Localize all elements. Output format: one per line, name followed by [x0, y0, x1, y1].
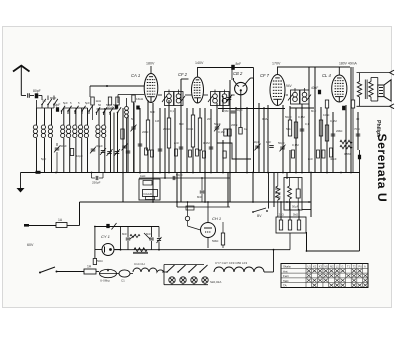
resistor R20 — [288, 120, 291, 136]
resistor below oscillator coil — [121, 129, 124, 139]
svg-text:A: A — [364, 264, 366, 268]
switch BV — [252, 211, 254, 213]
resistor R11 — [167, 118, 170, 148]
wire y178 — [139, 177, 230, 179]
trimmer capacitor C5 — [55, 147, 60, 149]
band switch S3 contacts — [96, 112, 98, 114]
svg-text:G: G — [341, 264, 343, 268]
svg-text:200Ω: 200Ω — [163, 127, 171, 131]
output transformer secondary — [369, 82, 373, 98]
svg-text:140V: 140V — [195, 61, 204, 65]
svg-text:1nF: 1nF — [266, 140, 271, 144]
svg-text:0,1M: 0,1M — [262, 117, 269, 121]
capacitor C10 — [115, 105, 118, 109]
svg-text:Serenata U: Serenata U — [375, 134, 389, 203]
svg-text:CB 2: CB 2 — [233, 71, 243, 76]
svg-text:1M: 1M — [155, 119, 160, 123]
svg-text:1A: 1A — [87, 265, 92, 269]
resistor slant left — [130, 234, 140, 237]
pot volume — [185, 216, 189, 220]
trimmer bridge — [157, 238, 161, 240]
heater bumps tubes — [214, 267, 264, 272]
svg-text:8nF: 8nF — [197, 195, 202, 199]
svg-text:M1: M1 — [324, 264, 328, 268]
wire CY1 loop top — [95, 226, 121, 228]
capacitor CL4 cathode — [342, 106, 345, 111]
wire y108 long — [218, 108, 285, 110]
dial lamp bottom bus — [164, 284, 208, 286]
coil L8 — [84, 125, 88, 138]
capacitor 8nF bridge right — [149, 237, 154, 239]
mains switch — [39, 272, 41, 274]
wire CF2 grid top — [181, 78, 189, 80]
svg-text:0,5M: 0,5M — [344, 152, 351, 156]
svg-text:CY 1: CY 1 — [101, 234, 110, 239]
svg-text:8nF: 8nF — [174, 141, 179, 145]
wire CA1 plate to T1 — [158, 94, 162, 96]
coil L4 — [61, 125, 65, 138]
svg-text:8nF: 8nF — [236, 62, 242, 66]
svg-text:50: 50 — [106, 103, 110, 107]
mains dropper resistor — [276, 186, 280, 200]
coil L9 — [96, 125, 100, 138]
svg-text:U1: U1 — [308, 264, 312, 268]
resistor R14c — [223, 151, 226, 158]
resistor 1k in box — [143, 181, 152, 186]
coil L6 — [73, 125, 77, 138]
svg-text:8nF: 8nF — [122, 232, 127, 236]
svg-text:5kΩ: 5kΩ — [293, 213, 299, 217]
capacitor C22b trimmer — [280, 146, 285, 148]
coil L2 — [41, 125, 45, 138]
band switch S2 contacts — [61, 110, 63, 112]
capacitor 80pF — [35, 93, 39, 98]
wire CY1 left — [94, 227, 96, 259]
junction on grid wire — [106, 85, 108, 87]
svg-text:K2: K2 — [313, 264, 317, 268]
output transformer core — [364, 80, 366, 100]
svg-text:16kΩ: 16kΩ — [136, 97, 144, 101]
fuse line 60V — [25, 225, 56, 227]
wire heater right — [264, 271, 274, 273]
capacitor 8nF bridge left — [126, 237, 131, 239]
switch table — [281, 264, 368, 288]
svg-text:10pF: 10pF — [76, 154, 83, 158]
svg-text:CY7 CHY CF9 CB0 LF3: CY7 CHY CF9 CB0 LF3 — [215, 261, 247, 265]
svg-text:CH 1: CH 1 — [212, 216, 221, 221]
wire CF2 plate top rail — [197, 67, 199, 77]
trimmer capacitor C6 — [91, 148, 96, 150]
resistor R4 16k — [132, 95, 135, 102]
svg-text:80pF: 80pF — [33, 89, 41, 93]
tube CL4 — [332, 75, 347, 102]
coil L3 — [48, 125, 52, 138]
trimmer near T2 — [227, 97, 232, 99]
lower verticals — [123, 173, 287, 208]
svg-text:250pF: 250pF — [92, 181, 101, 185]
svg-text:5pF: 5pF — [41, 157, 46, 161]
bridge verticals — [121, 227, 160, 250]
svg-text:8nF: 8nF — [179, 122, 184, 126]
barretter U-0.6A — [100, 269, 117, 277]
output transformer primary — [357, 82, 361, 98]
capacitor C26 — [179, 146, 184, 148]
trimmer capacitor C9 — [115, 151, 120, 153]
svg-text:8nF: 8nF — [311, 109, 316, 113]
capacitor 250pF — [95, 176, 97, 180]
tube CF2 — [192, 77, 204, 103]
wire CB2 diode left — [234, 81, 237, 85]
resistor R24 zigzag — [340, 140, 352, 144]
choke C1 oval — [119, 270, 130, 277]
tube CF7 — [270, 75, 285, 106]
dial lamps — [169, 277, 175, 283]
svg-text:TA: TA — [283, 284, 287, 288]
box DAC rectifier — [139, 179, 160, 200]
electrolytic capacitor — [296, 189, 300, 198]
svg-text:50pF: 50pF — [253, 140, 260, 144]
svg-text:Ant: Ant — [283, 269, 288, 273]
svg-text:70Ω: 70Ω — [354, 127, 360, 131]
svg-text:CF 7: CF 7 — [260, 73, 270, 78]
resistor R14a — [224, 129, 227, 136]
capacitor on CY1 loop — [106, 224, 109, 228]
coil L7 — [79, 125, 83, 138]
svg-text:2M: 2M — [207, 117, 212, 121]
resistor CL4 cathode — [351, 100, 354, 108]
bus 2 — [80, 201, 312, 203]
wire bus middle verticals — [123, 78, 268, 173]
svg-text:50: 50 — [98, 103, 102, 107]
step wire — [217, 143, 251, 159]
capacitor C25 — [158, 148, 163, 150]
fuse 1A lower — [84, 269, 96, 274]
trimmer capacitor C8 — [107, 151, 112, 153]
svg-text:Sk0,02A: Sk0,02A — [210, 280, 221, 284]
svg-text:94V: 94V — [286, 84, 293, 88]
svg-text:C1: C1 — [121, 279, 125, 283]
svg-text:1A: 1A — [58, 218, 63, 222]
connector arrow top — [390, 70, 395, 75]
resistor R10 — [146, 120, 149, 150]
svg-text:1MΩ: 1MΩ — [323, 113, 330, 117]
capacitor 50pF lower — [172, 176, 174, 180]
svg-text:CA 1: CA 1 — [131, 73, 140, 78]
IF transformer T1 — [165, 92, 174, 106]
svg-text:K3: K3 — [319, 264, 323, 268]
tube CY1 — [102, 244, 114, 256]
trimmer capacitor C9b — [122, 145, 127, 147]
resistor R22 — [319, 120, 322, 136]
fuse 1A upper — [56, 223, 67, 228]
lower band small resistors — [145, 148, 148, 155]
capacitor on AGC line — [358, 155, 361, 160]
resistor R14b — [228, 129, 231, 136]
svg-text:0,1M: 0,1M — [218, 130, 225, 134]
capacitor C24 — [138, 143, 143, 145]
wire CY1 anode — [95, 249, 102, 251]
divider box — [276, 217, 306, 233]
wire grid line to CA1 — [90, 85, 144, 87]
tube CH1 — [201, 223, 216, 238]
svg-text:80pF: 80pF — [50, 96, 57, 100]
svg-text:50pF: 50pF — [214, 122, 221, 126]
wire y108 right — [290, 107, 314, 109]
svg-text:2MΩ: 2MΩ — [142, 130, 149, 134]
capacitor C27 — [209, 146, 214, 148]
svg-text:170V: 170V — [272, 62, 281, 66]
wire fuse riser — [79, 202, 81, 226]
capacitor C28 — [131, 126, 136, 128]
resistor 150ohm — [325, 100, 328, 108]
coil bank vertical wires — [37, 108, 118, 173]
resistor R23 — [325, 125, 328, 141]
capacitor C10b — [136, 106, 139, 110]
electrolytic box — [284, 178, 302, 211]
IF transformer T2 — [211, 92, 220, 106]
tube CA1 — [144, 74, 158, 103]
svg-text:5pF: 5pF — [85, 101, 90, 105]
coil L10 — [102, 125, 106, 138]
svg-text:BV: BV — [257, 214, 262, 218]
svg-text:2MΩ: 2MΩ — [336, 129, 343, 133]
dial lamp switch rail — [164, 264, 204, 266]
ground bus — [21, 172, 360, 174]
ground symbol — [20, 173, 22, 189]
svg-text:0,1M: 0,1M — [203, 141, 210, 145]
svg-text:0,1M: 0,1M — [298, 115, 305, 119]
svg-text:DAAD: DAAD — [144, 192, 153, 196]
speaker — [378, 85, 384, 97]
svg-text:50: 50 — [131, 117, 135, 121]
resistor R12 — [191, 115, 194, 147]
capacitor C31 — [331, 133, 336, 135]
capacitor 8nF lower — [200, 190, 205, 192]
wire antenna to input — [21, 95, 26, 97]
resistor R25 zigzag — [340, 145, 352, 149]
svg-text:U-06kµ: U-06kµ — [100, 279, 110, 283]
wire coil bank top links — [37, 107, 55, 109]
svg-text:0,5M: 0,5M — [330, 119, 337, 123]
svg-text:CL 4: CL 4 — [322, 73, 331, 78]
svg-text:180V: 180V — [146, 62, 155, 66]
svg-text:1kΩ: 1kΩ — [140, 174, 146, 178]
resistor 5M — [221, 233, 224, 245]
wire output bottom — [357, 105, 390, 107]
svg-text:30pF: 30pF — [96, 144, 103, 148]
antenna — [13, 66, 30, 72]
capacitor antenna series — [27, 93, 29, 98]
band switch S1 contacts — [41, 96, 43, 101]
svg-text:50Ω: 50Ω — [97, 259, 103, 263]
svg-text:50pF: 50pF — [278, 141, 285, 145]
capacitor 8nF feedthrough — [231, 65, 235, 70]
resistor R2 — [108, 97, 111, 105]
svg-text:300Ω: 300Ω — [186, 127, 194, 131]
capacitor C30 — [300, 128, 305, 130]
wire BV feed — [268, 173, 270, 209]
resistor R21 — [294, 122, 297, 138]
capacitor C29 — [215, 126, 220, 128]
svg-text:5MΩ: 5MΩ — [212, 239, 219, 243]
resistor below DAAD — [146, 197, 155, 200]
svg-text:8nF: 8nF — [150, 110, 155, 114]
capacitor C23 — [126, 150, 131, 152]
heater line 249.5 — [115, 249, 290, 251]
resistor R1 — [91, 97, 94, 105]
svg-text:0,1: 0,1 — [170, 109, 174, 113]
resistor R3 — [116, 97, 119, 105]
svg-text:0,1: 0,1 — [42, 99, 46, 103]
heater bumps left C14 CH — [133, 268, 164, 272]
resistor underline — [133, 251, 148, 253]
svg-text:C14 CH: C14 CH — [134, 262, 145, 266]
right verticals — [283, 67, 358, 173]
resistor slant right — [144, 233, 150, 239]
capacitor 50pF — [56, 107, 59, 112]
svg-text:50pF: 50pF — [60, 144, 67, 148]
svg-text:Fern: Fern — [283, 274, 290, 278]
svg-text:0,5M: 0,5M — [222, 109, 229, 113]
terminal on bus — [36, 171, 41, 174]
IF transformer T3 — [291, 90, 300, 104]
right lower verticals — [307, 173, 312, 252]
coil L5 — [67, 125, 71, 138]
resistor R on CB2 line — [239, 128, 242, 135]
wire output top — [357, 72, 390, 74]
coil L11 oscillator — [125, 107, 129, 118]
svg-text:60V: 60V — [27, 243, 34, 247]
bus 3 link — [302, 209, 311, 211]
svg-text:50p: 50p — [113, 103, 118, 107]
coil L1 — [33, 125, 37, 138]
wire y251 to divider — [307, 250, 360, 252]
resistor 50ohm vertical — [93, 259, 96, 265]
wire CY1 cathode — [114, 249, 121, 251]
capacitor C22 trimmer — [255, 145, 260, 147]
wire y207 — [177, 206, 230, 208]
resistor zigzag on heater line — [134, 248, 147, 252]
svg-text:5pF: 5pF — [63, 101, 68, 105]
svg-text:2MΩ: 2MΩ — [231, 123, 238, 127]
capacitor C32 — [356, 133, 361, 135]
svg-text:50pF: 50pF — [53, 103, 60, 107]
dial lamp switches — [167, 265, 175, 272]
resistor 50k — [186, 206, 194, 210]
resistor in electro box — [288, 186, 292, 199]
capacitor 40nF — [318, 90, 321, 95]
svg-text:50µF: 50µF — [292, 205, 299, 209]
svg-text:0,1M: 0,1M — [292, 143, 299, 147]
wire T1 to CF2 — [185, 94, 192, 96]
svg-text:12kΩ: 12kΩ — [277, 213, 285, 217]
svg-text:M2: M2 — [330, 264, 334, 268]
svg-text:180V 40mA: 180V 40mA — [339, 62, 357, 66]
DAAD box — [143, 190, 158, 197]
capacitor C20 — [231, 110, 236, 112]
tube CB2 socket view — [235, 82, 247, 94]
svg-text:50pF: 50pF — [285, 115, 292, 119]
title separator line — [359, 150, 361, 251]
wire CB2 cathode down — [240, 90, 242, 127]
connector arrow bottom — [390, 104, 395, 109]
svg-text:PU: PU — [358, 264, 362, 268]
top rail 180V — [278, 66, 351, 68]
svg-text:Takt: Takt — [283, 279, 289, 283]
capacitor C21 — [269, 145, 274, 147]
svg-text:CF 2: CF 2 — [178, 72, 188, 77]
trimmer capacitor C7 — [101, 150, 106, 152]
rectifier bridge top rail — [121, 226, 160, 228]
wire to CA1 cathode — [118, 94, 144, 96]
wire CB2 diode right — [245, 81, 248, 85]
svg-text:Skala: Skala — [283, 265, 291, 269]
resistor R13 — [198, 118, 201, 150]
resistor R osc — [70, 149, 73, 156]
